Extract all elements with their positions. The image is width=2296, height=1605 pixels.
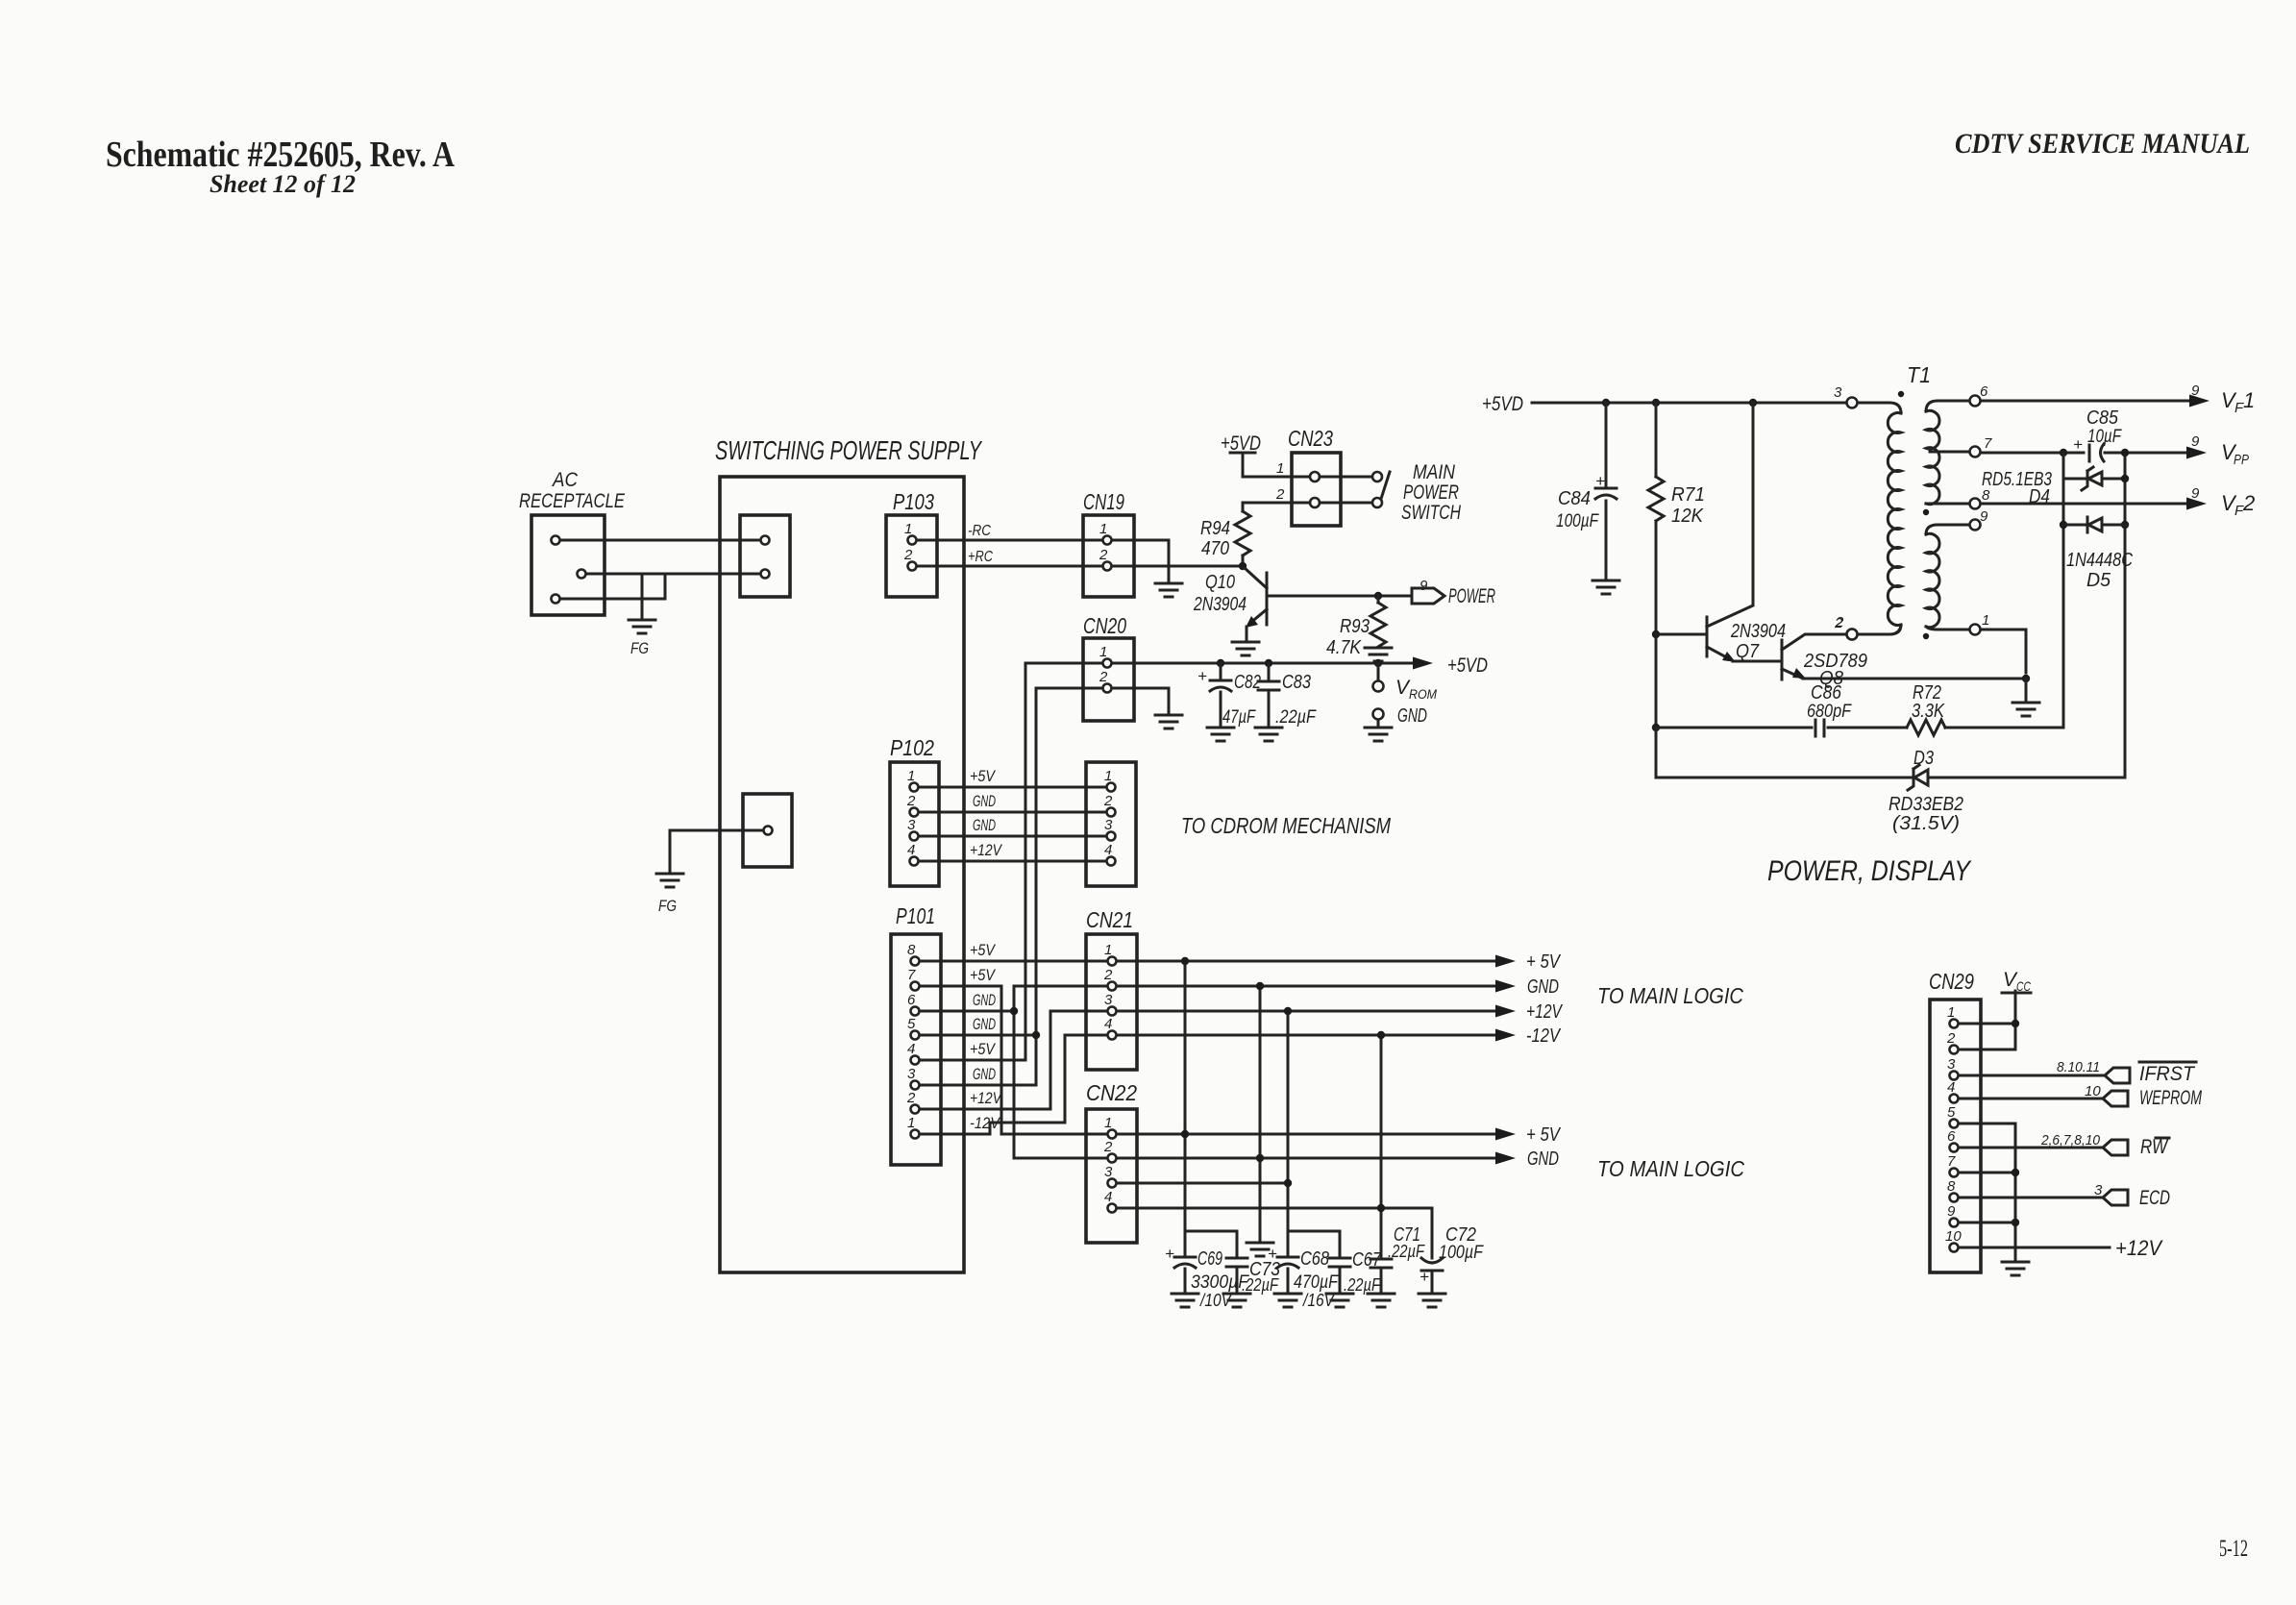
svg-text:T1: T1 xyxy=(1907,362,1931,387)
svg-text:+12V: +12V xyxy=(970,1089,1002,1107)
svg-text:CN29: CN29 xyxy=(1929,969,1974,994)
svg-text:P103: P103 xyxy=(893,489,934,514)
svg-text:2N3904: 2N3904 xyxy=(1193,594,1247,615)
svg-text:+: + xyxy=(1595,472,1605,490)
svg-text:MAIN: MAIN xyxy=(1413,461,1456,483)
svg-text:+12V: +12V xyxy=(2115,1236,2163,1260)
svg-text:Q7: Q7 xyxy=(1736,641,1760,662)
svg-text:+5V: +5V xyxy=(970,767,996,785)
svg-text:FG: FG xyxy=(658,897,677,915)
svg-text:GND: GND xyxy=(973,991,996,1009)
svg-text:CN21: CN21 xyxy=(1086,907,1133,932)
svg-text:100µF: 100µF xyxy=(1556,511,1599,531)
svg-text:470µF: 470µF xyxy=(1294,1272,1339,1293)
svg-text:9: 9 xyxy=(2191,433,2200,450)
svg-text:GND: GND xyxy=(1397,705,1427,727)
svg-text:1: 1 xyxy=(1276,460,1284,477)
svg-text:FG: FG xyxy=(630,639,649,657)
svg-text:R71: R71 xyxy=(1671,484,1705,506)
svg-text:GND: GND xyxy=(973,1015,996,1033)
svg-text:GND: GND xyxy=(973,1065,996,1083)
svg-text:3: 3 xyxy=(1834,384,1842,401)
svg-text:GND: GND xyxy=(973,792,996,810)
svg-text:(31.5V): (31.5V) xyxy=(1892,813,1960,834)
svg-text:GND: GND xyxy=(973,816,996,834)
svg-text:8.10.11: 8.10.11 xyxy=(2057,1059,2100,1075)
svg-text:WEPROM: WEPROM xyxy=(2139,1087,2202,1109)
svg-text:Schematic #252605, Rev. A: Schematic #252605, Rev. A xyxy=(106,135,455,175)
svg-text:ECD: ECD xyxy=(2139,1187,2170,1209)
svg-text:+5V: +5V xyxy=(970,1040,996,1058)
svg-text:+: + xyxy=(1165,1245,1174,1263)
svg-text:GND: GND xyxy=(1527,1148,1559,1170)
svg-text:9: 9 xyxy=(2191,383,2200,399)
svg-text:RD33EB2: RD33EB2 xyxy=(1889,794,1963,815)
svg-text:2: 2 xyxy=(1835,614,1844,630)
svg-text:9: 9 xyxy=(2191,485,2200,502)
svg-text:2,6,7,8,10: 2,6,7,8,10 xyxy=(2040,1132,2101,1148)
svg-text:R93: R93 xyxy=(1340,616,1370,637)
svg-text:+12V: +12V xyxy=(1526,1001,1563,1023)
svg-text:P101: P101 xyxy=(896,903,935,928)
svg-text:680pF: 680pF xyxy=(1807,702,1852,722)
svg-text:C83: C83 xyxy=(1282,672,1311,693)
svg-text:TO CDROM MECHANISM: TO CDROM MECHANISM xyxy=(1181,813,1392,838)
svg-text:9: 9 xyxy=(1420,578,1428,594)
svg-text:-RC: -RC xyxy=(968,523,991,539)
svg-text:IFRST: IFRST xyxy=(2139,1063,2196,1085)
svg-text:470: 470 xyxy=(1201,538,1229,559)
svg-text:.22µF: .22µF xyxy=(1344,1275,1381,1295)
svg-text:+: + xyxy=(1420,1268,1429,1286)
svg-text:PP: PP xyxy=(2234,452,2249,468)
svg-text:C85: C85 xyxy=(2086,407,2119,429)
svg-text:100µF: 100µF xyxy=(1439,1243,1484,1263)
svg-text:3.3K: 3.3K xyxy=(1912,701,1945,722)
svg-text:6: 6 xyxy=(1980,383,1988,400)
svg-text:2: 2 xyxy=(1099,547,1108,563)
svg-text:7: 7 xyxy=(1984,435,1992,452)
svg-text:4.7K: 4.7K xyxy=(1326,637,1362,658)
svg-text:+12V: +12V xyxy=(970,841,1002,859)
svg-text:2: 2 xyxy=(1099,669,1108,685)
svg-text:POWER, DISPLAY: POWER, DISPLAY xyxy=(1767,855,1972,887)
svg-text:47µF: 47µF xyxy=(1222,707,1256,728)
svg-text:.22µF: .22µF xyxy=(1242,1275,1279,1295)
svg-text:+5V: +5V xyxy=(970,966,996,984)
svg-text:1: 1 xyxy=(2243,388,2255,412)
svg-text:CN19: CN19 xyxy=(1083,489,1124,514)
svg-text:POWER: POWER xyxy=(1448,585,1495,607)
svg-text:R94: R94 xyxy=(1200,518,1230,539)
svg-text:TO MAIN LOGIC: TO MAIN LOGIC xyxy=(1597,983,1743,1008)
svg-text:.22µF: .22µF xyxy=(1275,707,1317,728)
svg-text:C68: C68 xyxy=(1300,1248,1329,1270)
svg-text:12K: 12K xyxy=(1671,506,1705,527)
svg-text:1: 1 xyxy=(1982,612,1989,629)
svg-text:1: 1 xyxy=(1099,644,1107,660)
svg-text:AC: AC xyxy=(551,469,579,491)
svg-text:C84: C84 xyxy=(1558,488,1591,509)
svg-text:9: 9 xyxy=(1980,508,1988,525)
svg-text:Q10: Q10 xyxy=(1205,572,1235,593)
svg-text:GND: GND xyxy=(1527,976,1559,998)
svg-text:RECEPTACLE: RECEPTACLE xyxy=(519,490,626,512)
svg-text:P102: P102 xyxy=(890,735,934,760)
svg-text:1: 1 xyxy=(1099,521,1107,537)
svg-text:+5VD: +5VD xyxy=(1482,393,1523,415)
svg-text:SWITCH: SWITCH xyxy=(1401,502,1462,524)
svg-text:C69: C69 xyxy=(1197,1248,1222,1270)
svg-text:2: 2 xyxy=(2242,491,2255,515)
svg-text:5-12: 5-12 xyxy=(2219,1536,2248,1562)
svg-text:CN20: CN20 xyxy=(1083,613,1126,638)
svg-text:+: + xyxy=(1268,1245,1277,1263)
svg-text:CN23: CN23 xyxy=(1288,426,1333,451)
svg-text:-12V: -12V xyxy=(1526,1025,1561,1047)
svg-text:CDTV SERVICE MANUAL: CDTV SERVICE MANUAL xyxy=(1955,128,2250,160)
svg-text:+5V: +5V xyxy=(970,941,996,959)
svg-text:+: + xyxy=(1197,667,1207,685)
svg-text:2N3904: 2N3904 xyxy=(1730,621,1786,642)
svg-text:2: 2 xyxy=(903,547,913,563)
svg-text:+RC: +RC xyxy=(968,549,993,565)
svg-text:CN22: CN22 xyxy=(1086,1080,1137,1105)
svg-text:POWER: POWER xyxy=(1403,481,1459,504)
svg-text:+ 5V: + 5V xyxy=(1526,951,1561,973)
svg-text:ROM: ROM xyxy=(1409,686,1437,702)
svg-text:+: + xyxy=(2073,435,2083,454)
svg-text:C86: C86 xyxy=(1811,682,1842,704)
svg-text:2: 2 xyxy=(1275,486,1285,503)
svg-text:TO MAIN LOGIC: TO MAIN LOGIC xyxy=(1597,1156,1744,1181)
svg-text:Sheet 12 of 12: Sheet 12 of 12 xyxy=(210,170,356,198)
svg-text:1: 1 xyxy=(904,521,912,537)
svg-text:1N4448C: 1N4448C xyxy=(2066,550,2133,571)
svg-text:3: 3 xyxy=(2094,1182,2103,1198)
svg-text:10: 10 xyxy=(2085,1083,2101,1099)
svg-text:D5: D5 xyxy=(2086,570,2111,591)
svg-text:SWITCHING POWER SUPPLY: SWITCHING POWER SUPPLY xyxy=(715,435,983,465)
svg-text:+ 5V: + 5V xyxy=(1526,1124,1561,1146)
svg-text:+5VD: +5VD xyxy=(1447,654,1488,677)
